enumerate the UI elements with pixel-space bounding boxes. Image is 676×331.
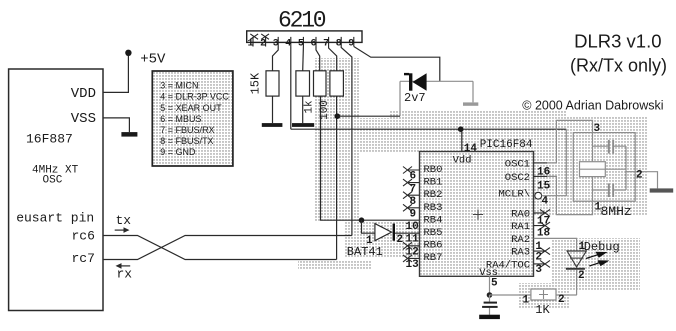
svg-text:(Rx/Tx only): (Rx/Tx only)	[570, 56, 667, 76]
svg-text:RB7: RB7	[424, 252, 443, 264]
svg-text:15K: 15K	[249, 72, 263, 94]
svg-text:Debug: Debug	[584, 240, 620, 254]
svg-text:RA4/TOC: RA4/TOC	[486, 259, 530, 271]
svg-text:3: 3	[594, 123, 601, 135]
svg-text:1k: 1k	[304, 100, 316, 114]
svg-text:RB0: RB0	[424, 164, 443, 176]
svg-text:Vdd: Vdd	[453, 155, 472, 167]
svg-text:RB6: RB6	[424, 240, 443, 252]
svg-text:5: 5	[491, 277, 498, 289]
svg-text:8 = FBUS/TX: 8 = FBUS/TX	[160, 136, 213, 146]
svg-text:6: 6	[410, 171, 417, 183]
svg-text:1: 1	[248, 39, 254, 50]
svg-text:RB1: RB1	[424, 177, 443, 189]
svg-text:BAT41: BAT41	[347, 245, 383, 259]
svg-text:RA1: RA1	[511, 221, 530, 233]
svg-text:RA0: RA0	[511, 208, 530, 220]
svg-text:7 = FBUS/RX: 7 = FBUS/RX	[160, 125, 214, 135]
svg-text:© 2000 Adrian Dabrowski: © 2000 Adrian Dabrowski	[522, 99, 663, 113]
svg-text:15: 15	[537, 180, 551, 192]
svg-text:16F887: 16F887	[26, 131, 73, 146]
svg-text:4: 4	[542, 196, 549, 208]
svg-text:2v7: 2v7	[404, 91, 426, 105]
svg-text:7: 7	[410, 183, 417, 195]
svg-text:9: 9	[348, 39, 354, 50]
svg-text:8: 8	[410, 196, 417, 208]
svg-text:100: 100	[319, 100, 331, 120]
svg-text:RB4: RB4	[424, 214, 443, 226]
svg-text:2: 2	[260, 39, 266, 50]
svg-text:9: 9	[410, 209, 417, 221]
svg-text:RA2: RA2	[511, 234, 530, 246]
svg-text:1K: 1K	[535, 303, 550, 317]
svg-text:+5V: +5V	[140, 52, 166, 68]
svg-text:tx: tx	[116, 213, 132, 228]
svg-text:2: 2	[636, 170, 643, 182]
svg-text:OSC2: OSC2	[505, 172, 530, 184]
svg-text:10: 10	[406, 221, 419, 233]
svg-text:11: 11	[406, 234, 420, 246]
svg-text:14: 14	[464, 143, 478, 155]
svg-text:1: 1	[523, 294, 530, 306]
svg-text:3: 3	[535, 264, 542, 276]
svg-text:PIC16F84: PIC16F84	[480, 139, 533, 151]
svg-text:MCLR\: MCLR\	[498, 189, 530, 201]
svg-text:RB3: RB3	[424, 202, 443, 214]
svg-text:13: 13	[406, 259, 420, 271]
svg-text:RB2: RB2	[424, 189, 443, 201]
svg-text:6210: 6210	[278, 8, 326, 34]
svg-text:rx: rx	[117, 267, 133, 282]
svg-text:3 = MICN: 3 = MICN	[160, 81, 198, 91]
svg-text:RB5: RB5	[424, 227, 443, 239]
svg-text:5 = XEAR OUT: 5 = XEAR OUT	[160, 103, 222, 113]
svg-text:2: 2	[535, 251, 542, 263]
svg-text:VDD: VDD	[71, 86, 96, 102]
svg-text:18: 18	[537, 227, 551, 239]
svg-text:OSC: OSC	[43, 175, 63, 187]
svg-text:DLR3 v1.0: DLR3 v1.0	[574, 31, 661, 52]
svg-text:12: 12	[406, 246, 419, 258]
svg-text:eusart pin: eusart pin	[16, 211, 94, 226]
svg-text:8MHz: 8MHz	[601, 204, 632, 219]
svg-text:6 = MBUS: 6 = MBUS	[160, 114, 201, 124]
svg-text:9 = GND: 9 = GND	[160, 147, 196, 157]
svg-text:17: 17	[537, 216, 550, 228]
svg-text:rc6: rc6	[72, 229, 95, 244]
svg-text:2: 2	[397, 234, 404, 246]
svg-text:2: 2	[578, 270, 585, 282]
svg-text:RA3: RA3	[511, 247, 530, 259]
svg-text:VSS: VSS	[71, 111, 96, 127]
svg-text:2: 2	[558, 294, 565, 306]
svg-text:4 = DLR-3P VCC: 4 = DLR-3P VCC	[160, 92, 229, 102]
svg-text:OSC1: OSC1	[505, 158, 530, 170]
svg-text:rc7: rc7	[72, 251, 95, 266]
